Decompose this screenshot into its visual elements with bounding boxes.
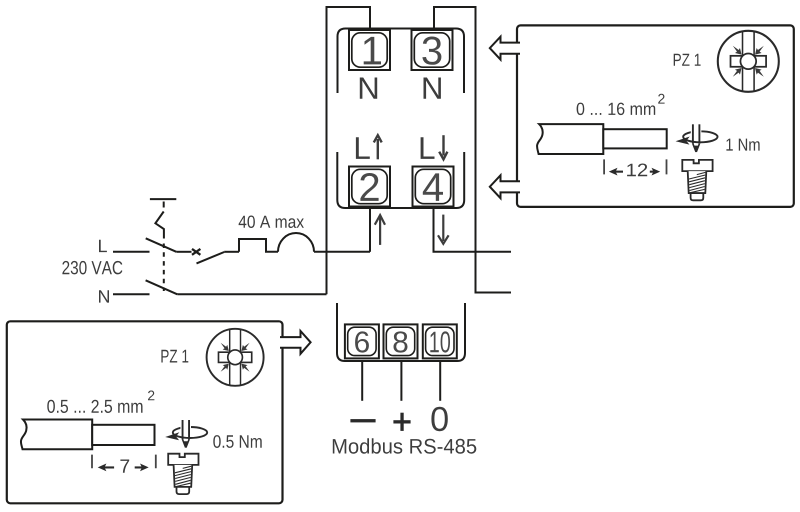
net label Modbus RS-485 [333, 438, 477, 453]
meter housing bottom (RS-485) [337, 303, 465, 361]
callout box left (RS-485 terminals) [7, 321, 283, 503]
actuator dash [163, 202, 165, 208]
pozidriv bit icon right [718, 31, 779, 92]
terminal 10 [423, 324, 457, 358]
dimension arrows 12 [609, 168, 660, 176]
current direction arrow up [375, 215, 385, 245]
label PZ 1 left [161, 350, 188, 363]
wire from terminal 10 [439, 361, 441, 401]
label PZ 1 right [674, 54, 701, 66]
fuse / thermal element Q1 [239, 239, 278, 252]
terminal 2 [349, 167, 390, 207]
value label 230 VAC [62, 261, 122, 275]
value label 0.5 Nm [213, 435, 261, 448]
pin label N of terminal 3 [424, 78, 441, 99]
polarity label minus [350, 419, 375, 422]
breaker contact x [192, 249, 200, 255]
actuator latch hook [155, 212, 164, 239]
screwdriver rotation icon right [676, 124, 718, 152]
cable insulation right [537, 124, 603, 154]
wire from terminal 4 to L output [434, 207, 512, 252]
wire L to terminal 2 [314, 251, 370, 253]
wire from terminal 2 down to L input [369, 207, 371, 252]
meter housing middle [337, 152, 464, 208]
wire from terminal 3 loop to N output [434, 7, 511, 293]
mechanical coupling dashed link [163, 244, 165, 292]
wire from terminal 1 loop to N input [327, 7, 371, 294]
switch S1 pole N blade [146, 280, 178, 294]
dimension arrows 7 [98, 464, 149, 472]
cable conductor left [92, 425, 154, 445]
pin label N of terminal 1 [360, 78, 377, 99]
value label 0 ... 16 mm2 [577, 103, 656, 116]
callout arrow to terminals 1-3 [490, 37, 520, 60]
dimension label 12 [627, 164, 647, 177]
polarity label 0 [431, 407, 447, 431]
terminal 3 [412, 30, 453, 70]
callout arrow to terminals 2-4 [490, 175, 520, 198]
switch actuator bar [150, 198, 176, 200]
terminal 6 [345, 324, 379, 358]
screwdriver rotation icon left [165, 420, 207, 448]
callout box right (power terminals) [517, 25, 794, 207]
cable insulation left [21, 420, 92, 450]
inductor arc [278, 233, 314, 252]
polarity label plus [393, 413, 410, 431]
value label 1 Nm [726, 139, 759, 151]
callout arrow to terminals 6-8-10 [280, 331, 311, 354]
screw icon right [682, 160, 712, 200]
pin label L up of terminal 2 [356, 137, 370, 159]
cable conductor right [603, 129, 666, 148]
switch S1 pole L blade [146, 238, 177, 252]
node L (supply phase label) [99, 240, 107, 252]
screw icon left [168, 454, 198, 494]
pozidriv bit icon left [207, 329, 264, 386]
pin label L down of terminal 4 [421, 137, 435, 159]
value label 0.5 ... 2.5 mm2 [47, 400, 142, 413]
wire from terminal 8 [400, 361, 402, 401]
terminal 1 [349, 30, 390, 70]
wire N from supply [113, 293, 150, 295]
node N (supply neutral label) [99, 290, 109, 302]
current direction arrow down [438, 215, 449, 244]
dimension ticks 12 [604, 159, 666, 174]
dimension label 7 [120, 460, 129, 473]
wire N to device [177, 293, 326, 295]
dimension ticks 7 [92, 455, 156, 469]
wire to fuse [224, 251, 239, 253]
wire to breaker contact [176, 251, 191, 253]
wire L from supply [113, 251, 150, 253]
value label 40 A max [239, 216, 304, 229]
wire from terminal 6 [361, 361, 363, 401]
meter housing top [338, 29, 465, 94]
breaker blade (open) [197, 252, 225, 263]
terminal 8 [384, 324, 418, 358]
terminal 4 [413, 167, 454, 207]
